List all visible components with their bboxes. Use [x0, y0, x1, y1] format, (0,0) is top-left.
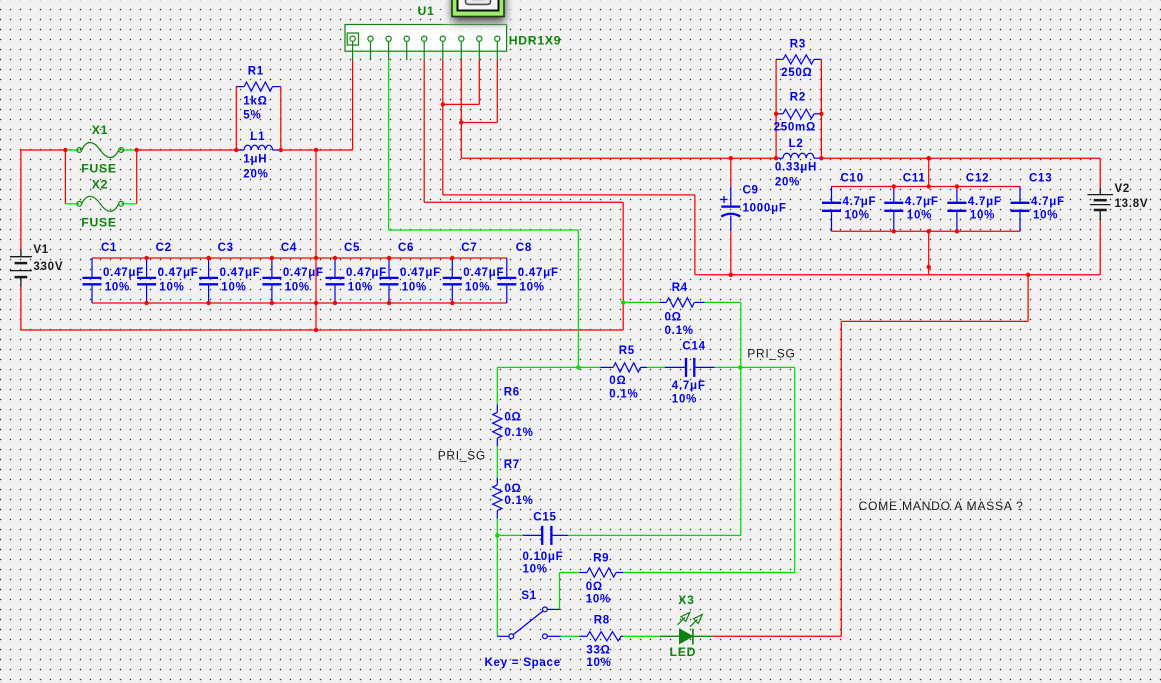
svg-text:10%: 10%: [907, 209, 932, 221]
wire pin7: [460, 60, 462, 158]
svg-text:R6: R6: [504, 387, 520, 399]
wire pin5 to R4 node: [423, 60, 425, 202]
resistor R2: [776, 113, 783, 115]
wire right main line: [461, 157, 776, 159]
svg-text:C14: C14: [682, 340, 705, 352]
svg-text:C4: C4: [281, 242, 297, 254]
svg-text:4.7μF: 4.7μF: [1031, 196, 1065, 208]
inductor L2: [776, 157, 783, 159]
battery V1: [20, 249, 22, 257]
svg-text:10%: 10%: [970, 209, 995, 221]
svg-text:1000μF: 1000μF: [743, 203, 787, 215]
svg-text:C12: C12: [966, 173, 989, 185]
svg-text:FUSE: FUSE: [81, 161, 117, 175]
capacitor C9: [730, 187, 732, 207]
capacitor C10: [831, 187, 833, 203]
svg-text:10%: 10%: [586, 594, 611, 606]
svg-text:33Ω: 33Ω: [586, 645, 610, 657]
junction pin6-pin8: [441, 102, 445, 106]
svg-text:C8: C8: [516, 242, 532, 254]
resistor R1: [236, 86, 244, 88]
svg-text:R3: R3: [790, 38, 806, 50]
svg-text:10%: 10%: [105, 282, 130, 294]
svg-text:U1: U1: [418, 4, 435, 18]
diode LED X3: [660, 635, 680, 637]
wire cap bank feed: [315, 150, 317, 330]
svg-text:S1: S1: [521, 590, 537, 602]
junction R4 input: [621, 300, 625, 304]
svg-text:C7: C7: [461, 242, 477, 254]
svg-text:COME MANDO A MASSA ?: COME MANDO A MASSA ?: [859, 499, 1024, 513]
svg-text:0Ω: 0Ω: [586, 581, 603, 593]
svg-text:0.1%: 0.1%: [665, 325, 694, 337]
wire fuse left stubs: [65, 149, 79, 151]
junction cap bus: [144, 256, 148, 260]
svg-text:HDR1X9: HDR1X9: [509, 33, 562, 47]
svg-text:330V: 330V: [33, 261, 63, 273]
junction cap feed: [314, 148, 318, 152]
svg-text:10%: 10%: [1033, 209, 1058, 221]
wire C10 bank feed: [928, 158, 930, 186]
resistor R5: [600, 366, 613, 368]
svg-text:0Ω: 0Ω: [609, 375, 626, 387]
svg-text:FUSE: FUSE: [81, 216, 117, 230]
svg-text:10%: 10%: [221, 282, 246, 294]
wire PRI_SG loop: [794, 367, 796, 572]
junction C11 C12 buses: [892, 184, 896, 188]
svg-text:250Ω: 250Ω: [781, 67, 812, 79]
svg-text:10%: 10%: [672, 394, 697, 406]
capacitor C8: [506, 258, 508, 278]
resistor R4: [659, 301, 666, 303]
svg-text:0.10μF: 0.10μF: [523, 551, 564, 563]
svg-text:0.1%: 0.1%: [504, 495, 533, 507]
connector U1 pins: [350, 36, 355, 41]
svg-text:C3: C3: [218, 242, 234, 254]
fuse X1: [77, 148, 82, 153]
wire fuse to L1 node: [137, 149, 237, 151]
svg-text:C15: C15: [533, 511, 556, 523]
svg-text:10%: 10%: [586, 657, 611, 669]
svg-text:10%: 10%: [402, 282, 427, 294]
svg-text:V1: V1: [33, 244, 49, 256]
junction pin3 net: [576, 365, 580, 369]
junction C15 node: [495, 533, 499, 537]
svg-text:C6: C6: [398, 242, 414, 254]
svg-text:10%: 10%: [520, 282, 545, 294]
wire pin9: [496, 60, 498, 123]
capacitor C3: [208, 258, 210, 278]
svg-text:X3: X3: [678, 593, 694, 607]
wire V1 top to fuse node: [21, 149, 66, 151]
junction PRI_SG node: [738, 365, 742, 369]
svg-text:C1: C1: [101, 242, 117, 254]
wire R9 left: [560, 572, 580, 574]
svg-text:4.7μF: 4.7μF: [672, 380, 706, 392]
wire branch to LED: [1027, 275, 1029, 322]
junction cap bus: [270, 256, 274, 260]
resistor R3: [776, 58, 783, 60]
svg-text:PRI_SG: PRI_SG: [747, 347, 795, 361]
svg-text:0.47μF: 0.47μF: [158, 267, 199, 279]
wire C15 row: [497, 534, 523, 536]
junction L1 nodes: [234, 148, 238, 152]
svg-text:0.47μF: 0.47μF: [400, 267, 441, 279]
junction pin7-pin9: [459, 120, 463, 124]
svg-text:R8: R8: [594, 615, 610, 627]
wire R5 row: [497, 366, 600, 368]
capacitor C7: [451, 258, 453, 278]
svg-text:0.33μH: 0.33μH: [775, 162, 817, 174]
capacitor C4: [271, 258, 273, 278]
junction L2 nodes: [774, 156, 778, 160]
svg-text:L2: L2: [789, 138, 804, 150]
wire fuse right stubs: [121, 149, 137, 151]
wire U1 pin stubs: [352, 51, 354, 60]
svg-text:20%: 20%: [243, 168, 268, 180]
wire R6 chain: [496, 367, 498, 404]
wire pin3 net: [388, 60, 390, 230]
svg-text:R9: R9: [593, 553, 609, 565]
connector U1 photo icon: [444, 0, 512, 22]
svg-text:0.47μF: 0.47μF: [220, 267, 261, 279]
junction cap bus: [333, 256, 337, 260]
svg-text:C13: C13: [1029, 173, 1052, 185]
svg-text:L1: L1: [250, 131, 265, 143]
junction fuse left: [63, 148, 67, 152]
inductor L1: [236, 149, 244, 151]
svg-text:C10: C10: [841, 173, 864, 185]
svg-text:1μH: 1μH: [243, 154, 267, 166]
wire cap bank bottom bus: [92, 302, 507, 304]
junction cap bus: [450, 256, 454, 260]
capacitor C11: [893, 187, 895, 203]
svg-text:PRI_SG: PRI_SG: [438, 448, 486, 462]
wire R8 left: [561, 635, 580, 637]
svg-text:10%: 10%: [159, 282, 184, 294]
svg-text:0.1%: 0.1%: [504, 427, 533, 439]
wire pin6 to right rail: [443, 194, 695, 196]
wire R8 to LED: [623, 635, 660, 637]
capacitor C15: [523, 534, 542, 536]
wire L1 node to U1 pin1: [281, 149, 353, 151]
capacitor C12: [956, 187, 958, 203]
switch S1: [509, 634, 514, 639]
resistor R6: [496, 404, 498, 412]
wire pin6: [442, 60, 444, 195]
svg-text:1kΩ: 1kΩ: [243, 95, 267, 107]
wire R4 left: [623, 301, 659, 303]
capacitor C13: [1019, 187, 1021, 203]
svg-text:C2: C2: [156, 242, 172, 254]
connector U1 pin1 square: [347, 33, 358, 45]
svg-text:4.7μF: 4.7μF: [968, 196, 1002, 208]
svg-text:10%: 10%: [845, 209, 870, 221]
capacitor C5: [334, 258, 336, 278]
svg-text:X1: X1: [92, 123, 108, 137]
wire C10 bank top bus: [832, 186, 1021, 188]
svg-text:4.7μF: 4.7μF: [843, 196, 877, 208]
capacitor C6: [388, 258, 390, 278]
junction rail branch: [1026, 273, 1030, 277]
junction C9 bottom: [729, 273, 733, 277]
wire pin8: [478, 60, 480, 104]
svg-text:250mΩ: 250mΩ: [774, 122, 816, 134]
svg-text:R1: R1: [248, 66, 264, 78]
wire V1 bottom rail: [20, 287, 22, 330]
junction cap bus: [387, 256, 391, 260]
connector U1 box: [345, 25, 507, 52]
svg-text:0.47μF: 0.47μF: [518, 267, 559, 279]
svg-text:R2: R2: [790, 91, 806, 103]
wire R4 right: [705, 301, 741, 303]
resistor R9: [579, 572, 587, 574]
wire V2 bottom: [1099, 221, 1101, 275]
wire right bottom rail: [695, 274, 1100, 276]
junction cap bus: [206, 256, 210, 260]
svg-text:10%: 10%: [465, 282, 490, 294]
svg-text:10%: 10%: [285, 282, 310, 294]
svg-text:10%: 10%: [348, 282, 373, 294]
svg-text:20%: 20%: [775, 176, 800, 188]
capacitor C14: [665, 366, 686, 368]
junction C9 top: [729, 156, 733, 160]
capacitor C2: [146, 258, 148, 278]
junction R2 nodes: [774, 112, 778, 116]
resistor R7: [496, 478, 498, 485]
resistor R8: [579, 635, 587, 637]
svg-text:0Ω: 0Ω: [504, 411, 521, 423]
svg-text:10%: 10%: [523, 564, 548, 576]
wire C10 bank bottom bus: [832, 230, 1021, 232]
svg-text:13.8V: 13.8V: [1115, 198, 1149, 210]
capacitor C1: [91, 258, 93, 278]
wire R1 verticals: [235, 87, 237, 150]
svg-text:R7: R7: [504, 459, 520, 471]
svg-text:LED: LED: [670, 645, 697, 659]
svg-text:0Ω: 0Ω: [665, 311, 682, 323]
wire R3 R2 verticals: [775, 59, 777, 158]
svg-text:C9: C9: [743, 185, 759, 197]
svg-text:X2: X2: [92, 177, 108, 191]
junction C10 bank feed: [927, 156, 931, 160]
svg-text:0Ω: 0Ω: [504, 483, 521, 495]
wire S1 common: [497, 635, 509, 637]
wire C9 leads: [730, 158, 732, 186]
svg-text:V2: V2: [1115, 183, 1131, 195]
wire cap bank top bus: [92, 257, 507, 259]
battery V2: [1099, 188, 1101, 195]
svg-text:5%: 5%: [243, 109, 261, 121]
fuse X2: [77, 201, 82, 206]
svg-text:R4: R4: [672, 282, 688, 294]
svg-text:4.7μF: 4.7μF: [905, 196, 939, 208]
svg-text:Key = Space: Key = Space: [485, 657, 561, 669]
svg-text:0.1%: 0.1%: [609, 389, 638, 401]
svg-text:R5: R5: [619, 345, 635, 357]
svg-text:0.47μF: 0.47μF: [283, 267, 324, 279]
svg-text:C11: C11: [903, 173, 926, 185]
svg-text:C5: C5: [344, 242, 360, 254]
